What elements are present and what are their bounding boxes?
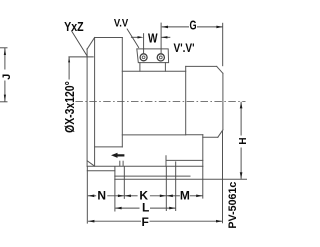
svg-text:V'.V': V'.V' bbox=[173, 42, 194, 55]
svg-text:F: F bbox=[141, 215, 148, 229]
svg-text:L: L bbox=[142, 201, 149, 215]
svg-text:G: G bbox=[190, 19, 197, 33]
svg-text:N: N bbox=[97, 189, 106, 203]
svg-text:H: H bbox=[238, 137, 247, 144]
svg-text:V.V: V.V bbox=[114, 18, 129, 30]
svg-text:J: J bbox=[1, 74, 13, 80]
svg-text:W: W bbox=[148, 31, 158, 45]
svg-text:YxZ: YxZ bbox=[64, 20, 83, 34]
svg-text:ØX-3x120°: ØX-3x120° bbox=[63, 81, 77, 133]
svg-text:PV-5061c: PV-5061c bbox=[227, 182, 239, 229]
svg-text:M: M bbox=[180, 189, 190, 203]
